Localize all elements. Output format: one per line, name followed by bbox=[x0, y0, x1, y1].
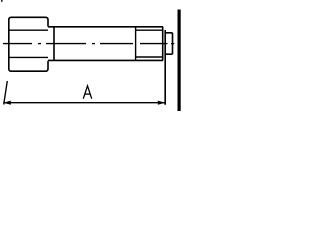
dimension line bbox=[3, 102, 165, 104]
tip bottom edge bbox=[165, 53, 172, 55]
shaft top line bbox=[48, 26, 163, 28]
dimension arrow left bbox=[3, 101, 11, 105]
hex facet line upper bbox=[9, 29, 48, 31]
left extension line bbox=[4, 81, 8, 105]
shaft bottom line bbox=[48, 59, 163, 61]
drawing frame border (right, cropped) bbox=[178, 10, 181, 112]
hex facet line lower bbox=[9, 56, 48, 58]
hex head outline bbox=[9, 17, 48, 71]
thread minor line upper bbox=[136, 29, 163, 31]
tip end face bbox=[172, 33, 174, 54]
corner tick (crop artifact) bbox=[1, 0, 2, 2]
tip top edge bbox=[165, 32, 172, 34]
centerline dash-dot bbox=[3, 43, 174, 45]
right extension line bbox=[164, 30, 166, 105]
washer face line bbox=[53, 27, 55, 61]
thread runout line bbox=[135, 27, 137, 61]
shaft end face bbox=[162, 27, 164, 61]
thread minor line lower bbox=[136, 56, 163, 58]
dimension arrow right bbox=[158, 101, 166, 105]
dimension label A bbox=[83, 86, 91, 99]
